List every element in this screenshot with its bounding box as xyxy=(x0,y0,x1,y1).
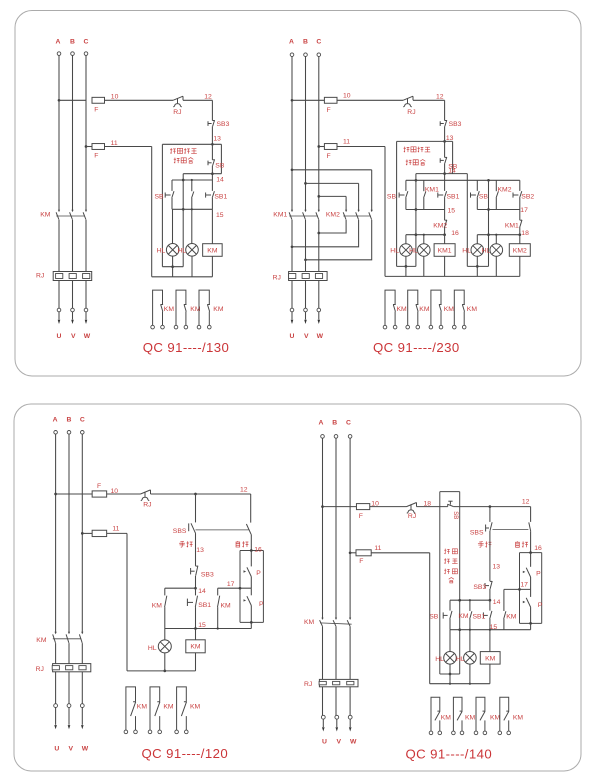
svg-text:HL: HL xyxy=(390,247,399,254)
branch SB start drop (c1) xyxy=(171,180,173,191)
terminal B (c3) xyxy=(67,431,71,435)
wire1 seg c (c3) xyxy=(151,493,251,495)
wire to U (c4) xyxy=(322,687,324,716)
wire phase A lower (c3) xyxy=(55,643,57,664)
rail 17 (c2) xyxy=(477,209,520,211)
wire SB to railB (c2) xyxy=(444,163,446,180)
contactor KM contact L1 (c3) xyxy=(55,632,57,634)
bottom rail (c2) xyxy=(385,275,520,277)
wire2 seg a (c4) xyxy=(350,552,356,554)
svg-text:RJ: RJ xyxy=(143,501,151,508)
junction rail14 x183 (c1) xyxy=(182,179,185,182)
svg-text:KM: KM xyxy=(467,306,478,313)
junction rail15 x183 (c1) xyxy=(182,208,185,211)
node 16 (c4) xyxy=(529,551,532,554)
svg-text:SB: SB xyxy=(387,194,397,201)
pressure contact P lower (c4) xyxy=(526,598,530,607)
branch KM2 drop (c2) xyxy=(495,180,497,191)
wire 15 to KM2 NC (c2) xyxy=(444,210,446,221)
lamp HL1 (c2) xyxy=(400,244,413,257)
wire 13 segment (c3) xyxy=(195,533,197,566)
aux contact KM no.3 (c1) xyxy=(199,290,209,325)
wire1 seg c (c4) xyxy=(417,506,448,508)
thermal relay RJ element (c4) xyxy=(319,679,358,686)
svg-text:KM2: KM2 xyxy=(513,247,527,254)
pushbutton SB3 (c4) xyxy=(485,581,492,589)
svg-text:17: 17 xyxy=(520,207,528,214)
node SBS tap (c4) xyxy=(489,505,492,508)
box text line2 an-niu-he (c1) xyxy=(174,158,194,164)
svg-text:KM: KM xyxy=(441,714,452,721)
wire to W (c2) xyxy=(318,281,320,309)
svg-text:RJ: RJ xyxy=(407,109,415,116)
bridge top A (c2) xyxy=(292,169,372,171)
contact KM1 NC interlock (c2) xyxy=(520,220,522,227)
svg-text:B: B xyxy=(67,416,72,423)
svg-text:QC 91----/130: QC 91----/130 xyxy=(143,340,230,355)
rail 17 (c4) xyxy=(504,588,531,590)
lamp HL1 (c4) xyxy=(444,652,457,665)
node 14 (c4) xyxy=(489,599,492,602)
branch KM drop (c3) xyxy=(164,588,166,595)
svg-text:14: 14 xyxy=(198,588,206,595)
svg-text:KM: KM xyxy=(465,714,476,721)
svg-text:F: F xyxy=(94,107,98,114)
svg-text:SBS: SBS xyxy=(173,528,187,535)
wire phase A (c3) xyxy=(55,434,57,633)
node 18 (c2) xyxy=(518,233,521,236)
svg-text:KM: KM xyxy=(40,212,51,219)
wire 17 to KM1 NC (c2) xyxy=(519,210,521,221)
lamp HL1 (c1) xyxy=(166,244,179,257)
svg-text:F: F xyxy=(97,483,101,490)
terminal V circle (c4) xyxy=(335,715,339,719)
SBS linkage (c4) xyxy=(493,528,529,530)
svg-text:KM1: KM1 xyxy=(438,247,452,254)
wire1 seg c (c2) xyxy=(413,99,445,101)
svg-text:RJ: RJ xyxy=(36,666,44,673)
KM linkage bar (c3) xyxy=(53,638,81,640)
svg-text:KM: KM xyxy=(513,714,524,721)
wire2 seg a (c2) xyxy=(319,146,325,148)
node tap C wire2 (c3) xyxy=(81,532,84,535)
coil KM bottom stem (c3) xyxy=(195,653,197,671)
branch SB1 lower (c4) xyxy=(489,619,491,630)
rail 14 (c2) xyxy=(416,173,467,175)
lamp HL1 top stem (c4) xyxy=(449,630,451,652)
wire2 seg b (c3) xyxy=(107,532,127,534)
lamp HL top stem (c3) xyxy=(164,629,166,640)
node 14 (c3) xyxy=(194,587,197,590)
junction rail18 x488 (c2) xyxy=(487,233,490,236)
svg-text:17: 17 xyxy=(520,582,528,589)
lamp HL4 top stem (c2) xyxy=(495,235,497,244)
wire2 drop (c3) xyxy=(126,533,128,671)
svg-text:V: V xyxy=(304,333,309,340)
branch SB1 lower (c1) xyxy=(211,198,213,209)
svg-text:KM1: KM1 xyxy=(425,186,439,193)
wire phase C lower (c1) xyxy=(85,220,87,272)
fuse F line10 (c2) xyxy=(324,97,337,103)
node tap A / wire1 (c1) xyxy=(58,99,61,102)
node tap A wire1 (c2) xyxy=(291,99,294,102)
coil KM2 top stem (c2) xyxy=(519,235,521,244)
fuse F line10 (c1) xyxy=(92,97,105,103)
svg-text:SB1: SB1 xyxy=(447,194,460,201)
contactor KM2 contact no.1 (c2) xyxy=(345,210,347,212)
wire to U (c3) xyxy=(55,672,57,704)
wire to 16 (c4) xyxy=(530,531,532,552)
svg-text:KM: KM xyxy=(36,637,47,644)
svg-text:RJ: RJ xyxy=(36,273,44,280)
contactor KM contact L3 (c4) xyxy=(349,618,351,620)
fuse F line10 (c4) xyxy=(356,504,369,510)
contact KM1 aux (c2) xyxy=(424,192,426,198)
node tap C / wire2 (c1) xyxy=(85,145,88,148)
stub V (c1) xyxy=(72,312,74,320)
stub U (c3) xyxy=(55,708,57,725)
terminal W circle (c4) xyxy=(348,715,352,719)
svg-text:10: 10 xyxy=(343,92,351,99)
svg-text:KM: KM xyxy=(190,704,201,711)
lamp HL2 (c1) xyxy=(186,244,199,257)
wire P2 to box bottom (c4) xyxy=(530,607,532,623)
mini rail L (c2) xyxy=(397,265,416,267)
lamp HL2 (c2) xyxy=(418,244,431,257)
terminal B (c4) xyxy=(334,435,338,439)
contact KM aux auto (c4) xyxy=(504,611,506,619)
bridge top C (c2) xyxy=(319,195,346,197)
svg-text:13: 13 xyxy=(196,547,204,554)
svg-text:F: F xyxy=(327,153,331,160)
svg-text:16: 16 xyxy=(451,230,459,237)
bridge col outer upper (c2) xyxy=(371,170,373,211)
wire node13 rail / box top (c2) xyxy=(397,140,453,142)
svg-text:A: A xyxy=(289,39,294,46)
lamp HL1 top stem (c1) xyxy=(172,209,174,243)
svg-text:RJ: RJ xyxy=(173,109,181,116)
mini rail (c1) xyxy=(162,266,183,268)
wire P2 to box bottom (c3) xyxy=(250,606,252,623)
wire phase B (c4) xyxy=(335,438,337,619)
pressure contact P upper (c3) xyxy=(247,567,251,576)
contact KM aux auto (c3) xyxy=(218,596,220,607)
branch SB1 drop (c3) xyxy=(195,588,197,595)
KM1 linkage bar (c2) xyxy=(289,215,318,217)
terminal V circle (c1) xyxy=(71,308,75,312)
lamp HL1 bottom stem (c2) xyxy=(405,256,407,276)
junction rail15 coil (c4) xyxy=(489,629,491,631)
thermal relay RJ element (c2) xyxy=(289,272,328,281)
lamp HL3 top stem (c2) xyxy=(476,235,478,244)
arrow W (c3) xyxy=(81,725,84,729)
contactor KM contact L3 (c3) xyxy=(81,632,83,634)
wire 16 to P1 (c4) xyxy=(530,553,532,567)
lamp HL1 top stem (c2) xyxy=(405,235,407,244)
junction railB x488 (c2) xyxy=(487,179,490,182)
arrow V (c4) xyxy=(336,727,339,731)
branch SB lower (c2) xyxy=(405,198,407,210)
terminal B (c1) xyxy=(71,52,75,56)
contactor KM2 contact no.2 (c2) xyxy=(358,210,360,212)
svg-text:SB3: SB3 xyxy=(473,584,486,591)
lamp HL4 bottom stem (c2) xyxy=(495,256,497,276)
contactor KM contact L2 (c4) xyxy=(335,618,337,620)
wire to 16 (c3) xyxy=(250,534,252,550)
svg-text:U: U xyxy=(322,739,327,746)
wire phase B lower (c4) xyxy=(335,626,337,679)
branch mid lower (c1) xyxy=(191,198,193,209)
node tap A bridge (c2) xyxy=(291,168,294,171)
aux contact KM no.1 (c2) xyxy=(385,290,395,325)
svg-text:HL: HL xyxy=(409,247,418,254)
wire 16 to P1 (c3) xyxy=(250,551,252,567)
node SBS tap (c3) xyxy=(194,493,197,496)
selector switch SBS right contact (c3) xyxy=(246,524,251,534)
contactor KM1 contact L2 (c2) xyxy=(304,210,306,212)
svg-text:W: W xyxy=(317,333,324,340)
wire 13 to SB (c2) xyxy=(444,141,446,157)
svg-text:SB1: SB1 xyxy=(473,613,486,620)
contactor KM contact L2 (c3) xyxy=(68,632,70,634)
node tap B bridge (c2) xyxy=(304,182,307,185)
contact KM2 aux (c2) xyxy=(496,192,498,198)
svg-text:KM: KM xyxy=(485,655,496,662)
wire to 18 (c2) xyxy=(519,227,521,235)
svg-text:V: V xyxy=(71,333,76,340)
wire auto drop (c4) xyxy=(530,507,532,522)
junction lamp2 bottom rail (c4) xyxy=(469,683,471,685)
wire phase B lower (c2) xyxy=(305,220,307,272)
wire phase B lower (c3) xyxy=(68,643,70,664)
svg-text:A: A xyxy=(319,420,324,427)
bridge return inner to C (c2) xyxy=(319,220,346,233)
fuse F line11 (c3) xyxy=(92,530,107,536)
svg-text:SB: SB xyxy=(429,613,439,620)
terminal A (c3) xyxy=(54,431,58,435)
svg-text:SB1: SB1 xyxy=(214,193,227,200)
svg-text:P: P xyxy=(259,601,264,608)
wire phase C (c3) xyxy=(81,434,83,633)
junction rail14 box-right (c4) xyxy=(458,599,461,602)
wire SBS left drop (c3) xyxy=(195,494,197,522)
node tap C bridge (c2) xyxy=(317,195,320,198)
wire1 seg c (c1) xyxy=(183,99,212,101)
wire phase C (c1) xyxy=(85,55,87,211)
svg-text:11: 11 xyxy=(343,139,350,146)
terminal U circle (c3) xyxy=(54,704,58,708)
arrow W (c4) xyxy=(349,727,352,731)
SBS linkage (c3) xyxy=(196,529,249,531)
node 16 (c3) xyxy=(250,549,253,552)
pushbutton SB1 (c1) xyxy=(206,191,215,198)
svg-text:18: 18 xyxy=(521,230,529,237)
wire to U (c2) xyxy=(291,281,293,309)
svg-text:RJ: RJ xyxy=(304,681,312,688)
svg-text:17: 17 xyxy=(227,581,235,588)
node tap C wire2 (c4) xyxy=(349,551,352,554)
svg-text:KM: KM xyxy=(207,247,218,254)
arrow V (c1) xyxy=(71,320,74,324)
wire SBS left drop (c4) xyxy=(489,507,491,522)
selector switch SBS left contact (c4) xyxy=(486,522,493,531)
junction box bottom (c3) xyxy=(250,621,253,624)
wire to V (c3) xyxy=(68,672,70,704)
terminal W circle (c1) xyxy=(84,308,88,312)
wire drop x416 (c2) xyxy=(415,174,417,267)
arrow V (c2) xyxy=(304,320,307,324)
svg-text:13: 13 xyxy=(493,563,501,570)
node tap A wire1 (c3) xyxy=(54,493,57,496)
node SB bottom (c1) xyxy=(211,172,214,175)
branch SBr drop (c2) xyxy=(476,180,478,191)
svg-text:KM: KM xyxy=(397,306,408,313)
coil KM1 (c2) xyxy=(434,244,455,257)
node tap C wire2 (c2) xyxy=(317,145,320,148)
fuse F line10 (c3) xyxy=(92,491,107,497)
wire to W (c3) xyxy=(81,672,83,704)
KM linkage bar (c4) xyxy=(320,623,352,624)
branch SB drop (c2) xyxy=(405,180,407,191)
wire to V (c2) xyxy=(305,281,307,309)
wire node12 down (c2) xyxy=(444,100,446,120)
lamp HL bottom stem (c3) xyxy=(164,653,166,671)
contactor KM main contact L2 (c1) xyxy=(71,210,73,212)
wire2 seg b (c4) xyxy=(371,552,430,554)
box text line1 (c2) xyxy=(404,147,431,153)
pushbutton SB start (c1) xyxy=(165,191,174,198)
branch KM17 lower (c3) xyxy=(217,607,219,628)
bridge col inner upper (c2) xyxy=(345,196,347,211)
junction rail16 x416 (c2) xyxy=(415,233,418,236)
wire phase C (c2) xyxy=(318,57,320,212)
fuse F line11 (c2) xyxy=(324,144,337,150)
selector switch SBS right contact (c4) xyxy=(529,522,531,531)
pushbutton SB1 (c4) xyxy=(483,611,492,619)
svg-text:15: 15 xyxy=(216,212,224,219)
svg-text:HL: HL xyxy=(157,247,166,254)
contact KM aux seal (c4) xyxy=(470,611,472,619)
lamp HL2 top stem (c4) xyxy=(469,630,471,652)
svg-text:RJ: RJ xyxy=(408,513,416,520)
coil KM bottom stem (c1) xyxy=(211,256,213,277)
wire phase A (c1) xyxy=(58,55,60,211)
svg-text:U: U xyxy=(57,333,62,340)
wire under SB (c1) xyxy=(183,173,221,175)
branch SB2 lower (c2) xyxy=(519,198,521,210)
svg-text:KM1: KM1 xyxy=(273,212,287,219)
arrow V (c3) xyxy=(68,725,71,729)
contactor KM2 contact no.3 (c2) xyxy=(371,210,373,212)
branch SB1 lower (c3) xyxy=(195,607,197,628)
branch KM lower (c3) xyxy=(164,607,166,628)
coil KM1 top stem (c2) xyxy=(444,235,446,244)
junction lamp1 mini rail (c1) xyxy=(171,265,174,268)
svg-text:15: 15 xyxy=(448,208,456,215)
svg-text:RJ: RJ xyxy=(273,274,281,281)
wire2 drop (c4) xyxy=(429,553,431,684)
svg-text:B: B xyxy=(303,39,308,46)
aux contact KM no.3 (c4) xyxy=(476,697,485,731)
fuse F line11 (c1) xyxy=(92,144,105,150)
wire1 seg b (c4) xyxy=(370,506,407,508)
svg-text:11: 11 xyxy=(374,545,381,552)
svg-text:12: 12 xyxy=(522,498,530,505)
arrow U (c1) xyxy=(58,320,61,324)
svg-text:SB3: SB3 xyxy=(201,571,214,578)
pressure contact P upper (c4) xyxy=(526,568,530,577)
junction lamp1 mini rail (c4) xyxy=(449,673,452,676)
svg-text:KM2: KM2 xyxy=(326,212,340,219)
pushbutton SB2 (c2) xyxy=(513,191,522,198)
svg-text:SBS: SBS xyxy=(470,529,484,536)
fuse F line11 (c4) xyxy=(356,550,371,556)
svg-text:16: 16 xyxy=(254,546,262,553)
svg-text:U: U xyxy=(54,745,59,752)
wire phase C lower (c2) xyxy=(318,220,320,272)
svg-text:F: F xyxy=(359,558,363,565)
terminal C (c3) xyxy=(81,431,85,435)
wire phase B (c3) xyxy=(68,434,70,633)
node 13 (c2) xyxy=(443,140,446,143)
rail 15 (c2) xyxy=(406,209,445,211)
wire1 seg a (c1) xyxy=(59,99,86,101)
branch KM drop (c4) xyxy=(469,600,471,611)
branch KM2 lower (c2) xyxy=(495,198,497,210)
wire node12 down (c1) xyxy=(211,100,213,120)
lamp HL1 bottom stem (c1) xyxy=(172,256,174,277)
aux contact KM no.2 (c2) xyxy=(408,290,418,325)
contact mid branch (c1) xyxy=(192,192,194,198)
svg-text:18: 18 xyxy=(424,501,432,508)
box text an-niu (c4) xyxy=(444,569,457,574)
lamp HL1 bottom stem (c4) xyxy=(449,664,451,684)
wire phase B (c2) xyxy=(305,57,307,212)
svg-text:B: B xyxy=(332,420,337,427)
terminal C (c4) xyxy=(348,435,352,439)
svg-text:10: 10 xyxy=(111,94,119,101)
branch SB lower (c4) xyxy=(449,619,451,630)
panel border bottom xyxy=(14,404,581,771)
pushbutton SB1 (c3) xyxy=(187,596,197,607)
wire node13 rail / box top (c1) xyxy=(162,143,221,145)
branch KM17 lower (c4) xyxy=(503,619,505,630)
wire1 seg d (c4) xyxy=(453,506,530,508)
wire phase A (c2) xyxy=(291,57,293,212)
pushbutton SB stop (c1) xyxy=(208,159,215,165)
junction rail15 box-right (c4) xyxy=(458,628,461,631)
stub V (c2) xyxy=(305,312,307,320)
svg-text:W: W xyxy=(350,739,357,746)
svg-text:HL: HL xyxy=(456,656,465,663)
wire1 seg a (c4) xyxy=(323,506,357,508)
junction rail16 x424 (c2) xyxy=(423,234,425,236)
label shou-dong manual (c3) xyxy=(179,541,192,547)
wire drop x467 (c2) xyxy=(466,174,468,267)
aux contact KM no.1 (c3) xyxy=(126,687,136,730)
svg-text:KM: KM xyxy=(152,602,163,609)
svg-text:SB: SB xyxy=(452,511,458,519)
wire1 seg b (c3) xyxy=(107,493,141,495)
rail 16 (c2) xyxy=(406,234,445,236)
wire mid drop (c1) xyxy=(182,174,184,267)
svg-text:F: F xyxy=(94,153,98,160)
junction rail17 x488 (c2) xyxy=(487,208,490,211)
stub U (c2) xyxy=(291,312,293,320)
svg-text:KM: KM xyxy=(444,306,455,313)
lamp HL2 bottom stem (c4) xyxy=(469,664,471,684)
wire 13 segment (c4) xyxy=(489,531,491,581)
